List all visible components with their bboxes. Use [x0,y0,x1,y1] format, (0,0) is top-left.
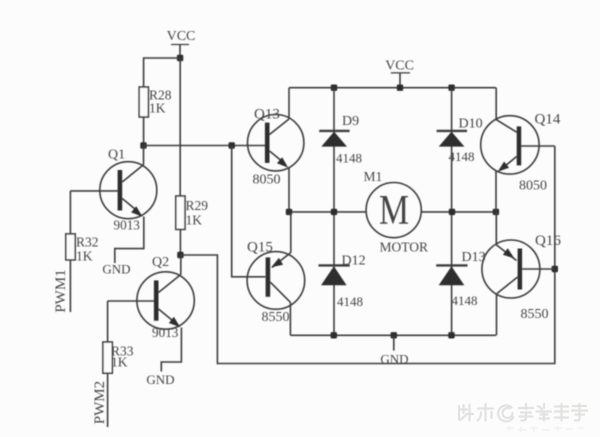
wire Q1 base to R32 [69,191,71,234]
node VCC (left supply label) [167,29,196,58]
wire Q13 emitter to motor rail [288,168,290,212]
wire D10/D13 column [451,88,453,336]
wire Q16 emitter to motor rail [495,212,497,245]
wire Q2 emitter to ground [161,328,181,372]
junction D9/D12 node [331,209,337,215]
wire Q2 base to R33 [107,301,109,342]
wire R29 to node C [179,229,181,255]
node VCC (bridge supply) [385,59,414,88]
svg-text:Q1: Q1 [108,148,125,163]
svg-text:1K: 1K [76,249,93,264]
junction GND tap [391,332,397,338]
svg-text:GND: GND [102,262,130,277]
transistor Q14 [481,112,561,194]
svg-text:R32: R32 [76,235,99,250]
resistor R29 [176,196,208,229]
svg-text:D12: D12 [342,254,366,269]
resistor R32 [66,234,99,264]
svg-text:M: M [379,188,409,234]
diode D10 [437,117,483,165]
svg-text:M1: M1 [364,169,383,184]
transistor Q15 [247,240,305,326]
junction D10/D13 node [449,209,455,215]
svg-text:PWM1: PWM1 [53,269,69,312]
junction node C (R29 / Q2 collector) [177,252,183,258]
resistor R33 [103,342,134,373]
junction Q13/Q15 node [286,209,292,215]
junction node B (branch to Q15 base) [229,142,235,148]
motor M1 [364,169,429,255]
wire node A to Q13 base [144,145,266,147]
junction node A (Q1 collector / R28) [140,142,146,148]
wire Q15 emitter to motor rail [290,212,292,253]
wire VCC to R29 [179,58,181,196]
svg-text:8550: 8550 [262,310,290,325]
svg-text:4148: 4148 [449,149,475,164]
svg-text:1K: 1K [186,213,203,228]
svg-text:Q2: Q2 [152,255,169,270]
svg-text:GND: GND [146,372,174,387]
wire VCC to R28 [144,58,181,87]
svg-text:9013: 9013 [114,218,141,233]
svg-text:VCC: VCC [167,29,196,44]
svg-text:9013: 9013 [152,325,179,340]
diode D12 [319,254,366,310]
wire Q16 collector to ground rail [496,294,498,336]
junction D10 top [448,85,454,91]
wire node B down to Q15 base [232,146,266,277]
svg-text:4148: 4148 [336,151,362,166]
wire node D to Q16 base [522,268,555,270]
wire GND stub [393,335,395,350]
svg-text:GND: GND [380,352,408,367]
watermark 知乎 @学海无涯 [459,404,587,421]
wire ground bottom rail [290,334,496,336]
wire R28 to node A [143,117,145,146]
svg-text:VCC: VCC [385,59,414,74]
svg-text:8050: 8050 [253,173,281,188]
svg-text:D10: D10 [459,117,483,132]
svg-text:PWM2: PWM2 [92,381,108,424]
wire Q1 emitter to ground [115,217,144,264]
svg-text:R29: R29 [186,198,209,213]
transistor Q1 [70,146,156,233]
junction under left VCC [177,55,183,61]
junction D9 top [331,85,337,91]
svg-text:4148: 4148 [452,293,478,308]
wire R32 to PWM1 [69,260,71,312]
wire motor rail right [421,211,496,213]
diode D9 [319,114,362,166]
junction VCC rail tap [397,85,403,91]
wire to Q14 base [521,145,555,147]
junction D12 bottom [331,332,337,338]
faint watermark second line [506,426,584,432]
svg-text:8050: 8050 [519,179,547,194]
wire Q14 emitter to motor rail [495,171,497,212]
wire Q13 collector to VCC rail [288,88,290,119]
wire D9/D12 column [333,88,335,336]
junction node D (Q16 base branch) [552,266,558,272]
svg-text:1K: 1K [111,355,128,370]
svg-text:8550: 8550 [521,307,549,322]
svg-text:1K: 1K [149,101,166,116]
transistor Q16 [482,233,561,322]
svg-text:4148: 4148 [337,294,363,309]
transistor Q2 [108,255,195,340]
junction Q14/Q16 node [493,209,499,215]
svg-text:MOTOR: MOTOR [380,240,429,255]
resistor R28 [139,87,172,117]
wire R33 to PWM2 [107,373,109,427]
wire Q14 collector to VCC rail [495,88,497,120]
wire node C to right-side bases (long route) [180,146,554,364]
wire Q15 collector to ground rail [289,302,291,335]
wire VCC top rail [289,87,496,89]
junction D13 bottom [448,332,454,338]
svg-text:Q14: Q14 [535,112,561,128]
transistor Q13 [248,107,304,188]
svg-text:Q16: Q16 [535,233,561,249]
diode D13 [436,250,485,308]
wire motor rail left [289,211,366,213]
svg-text:D9: D9 [342,114,359,129]
